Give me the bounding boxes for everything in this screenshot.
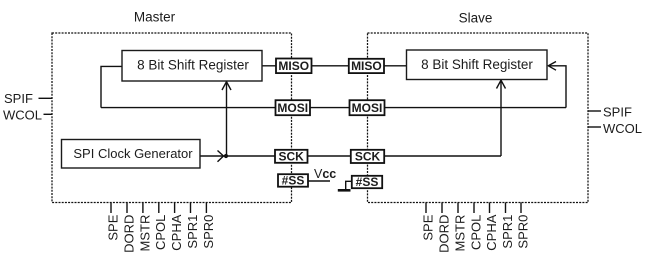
box master 8 Bit Shift Register — [122, 51, 262, 82]
svg-text:MISO: MISO — [351, 59, 382, 73]
port box slave #SS — [352, 176, 382, 188]
box SPI Clock Generator — [62, 140, 201, 169]
svg-text:SPR1: SPR1 — [185, 215, 200, 249]
svg-text:#SS: #SS — [282, 174, 305, 188]
slave control labels SPE DORD MSTR CPOL CPHA SPR1 SPR0 — [420, 214, 530, 253]
master dashed boundary box — [52, 33, 292, 203]
svg-text:8 Bit Shift Register: 8 Bit Shift Register — [137, 58, 249, 73]
svg-text:WCOL: WCOL — [3, 107, 42, 122]
port box master MOSI — [276, 100, 311, 115]
wire MOSI net: runs from feedback corner to slave loop-back — [101, 107, 566, 109]
svg-text:SPR1: SPR1 — [500, 215, 515, 249]
svg-text:Slave: Slave — [459, 10, 493, 25]
svg-text:SPI Clock Generator: SPI Clock Generator — [73, 146, 193, 161]
svg-text:SPR0: SPR0 — [515, 215, 530, 249]
tick WCOL left — [44, 113, 53, 115]
svg-text:#SS: #SS — [356, 175, 379, 189]
junction dot at clock node — [224, 154, 228, 158]
svg-text:MSTR: MSTR — [452, 215, 467, 252]
svg-text:DORD: DORD — [121, 215, 136, 253]
svg-text:CPOL: CPOL — [468, 215, 483, 250]
slave dashed boundary box — [368, 33, 589, 203]
svg-text:Master: Master — [134, 9, 176, 24]
port box master SCK — [275, 150, 308, 163]
port box slave SCK — [351, 150, 384, 163]
svg-text:CPOL: CPOL — [153, 215, 168, 250]
tick WCOL right — [588, 126, 601, 128]
svg-text:MOSI: MOSI — [277, 101, 308, 115]
wire master shift-register feedback to MOSI net — [101, 66, 122, 107]
master control ticks — [111, 203, 206, 214]
port box slave MOSI — [350, 100, 385, 115]
wire SCK net: clock generator output across to slave — [200, 155, 501, 157]
wire master #SS to Vcc — [308, 180, 330, 182]
slave #SS low-level step symbol — [338, 189, 351, 192]
svg-text:SPIF: SPIF — [603, 104, 632, 119]
svg-text:MOSI: MOSI — [352, 101, 383, 115]
svg-text:8 Bit Shift Register: 8 Bit Shift Register — [421, 57, 533, 72]
wire master clock riser into master shift register — [226, 82, 228, 157]
port box master MISO — [276, 59, 312, 74]
svg-text:SPR0: SPR0 — [201, 215, 216, 249]
slave control ticks — [426, 203, 521, 214]
svg-text:SPIF: SPIF — [4, 91, 33, 106]
arrowhead up into slave shift register — [497, 80, 506, 88]
wire MISO net: master shift register to slave shift register — [262, 65, 407, 67]
svg-text:WCOL: WCOL — [603, 121, 642, 136]
svg-text:MISO: MISO — [278, 59, 309, 73]
arrowhead left into slave shift register right edge — [548, 62, 556, 71]
svg-text:MSTR: MSTR — [137, 215, 152, 252]
tick SPIF left — [39, 97, 53, 99]
svg-text:SPE: SPE — [105, 214, 120, 240]
wire slave loop-back into slave shift register — [548, 66, 566, 108]
tick SPIF right — [588, 110, 601, 112]
arrowhead right at clock generator output — [218, 151, 224, 162]
svg-text:SCK: SCK — [355, 150, 381, 164]
svg-text:CPHA: CPHA — [484, 214, 499, 250]
box slave 8 Bit Shift Register — [407, 50, 548, 80]
wire slave clock riser into slave shift register — [500, 80, 502, 156]
svg-text:CPHA: CPHA — [169, 214, 184, 250]
svg-text:Vcc: Vcc — [314, 167, 336, 181]
master control labels SPE DORD MSTR CPOL CPHA SPR1 SPR0 — [105, 214, 215, 253]
port box slave MISO — [349, 59, 384, 73]
svg-text:DORD: DORD — [436, 215, 451, 253]
port box master #SS — [278, 174, 308, 187]
arrowhead up into master shift register — [222, 82, 231, 90]
svg-text:SPE: SPE — [420, 214, 435, 240]
svg-text:SCK: SCK — [279, 150, 305, 164]
